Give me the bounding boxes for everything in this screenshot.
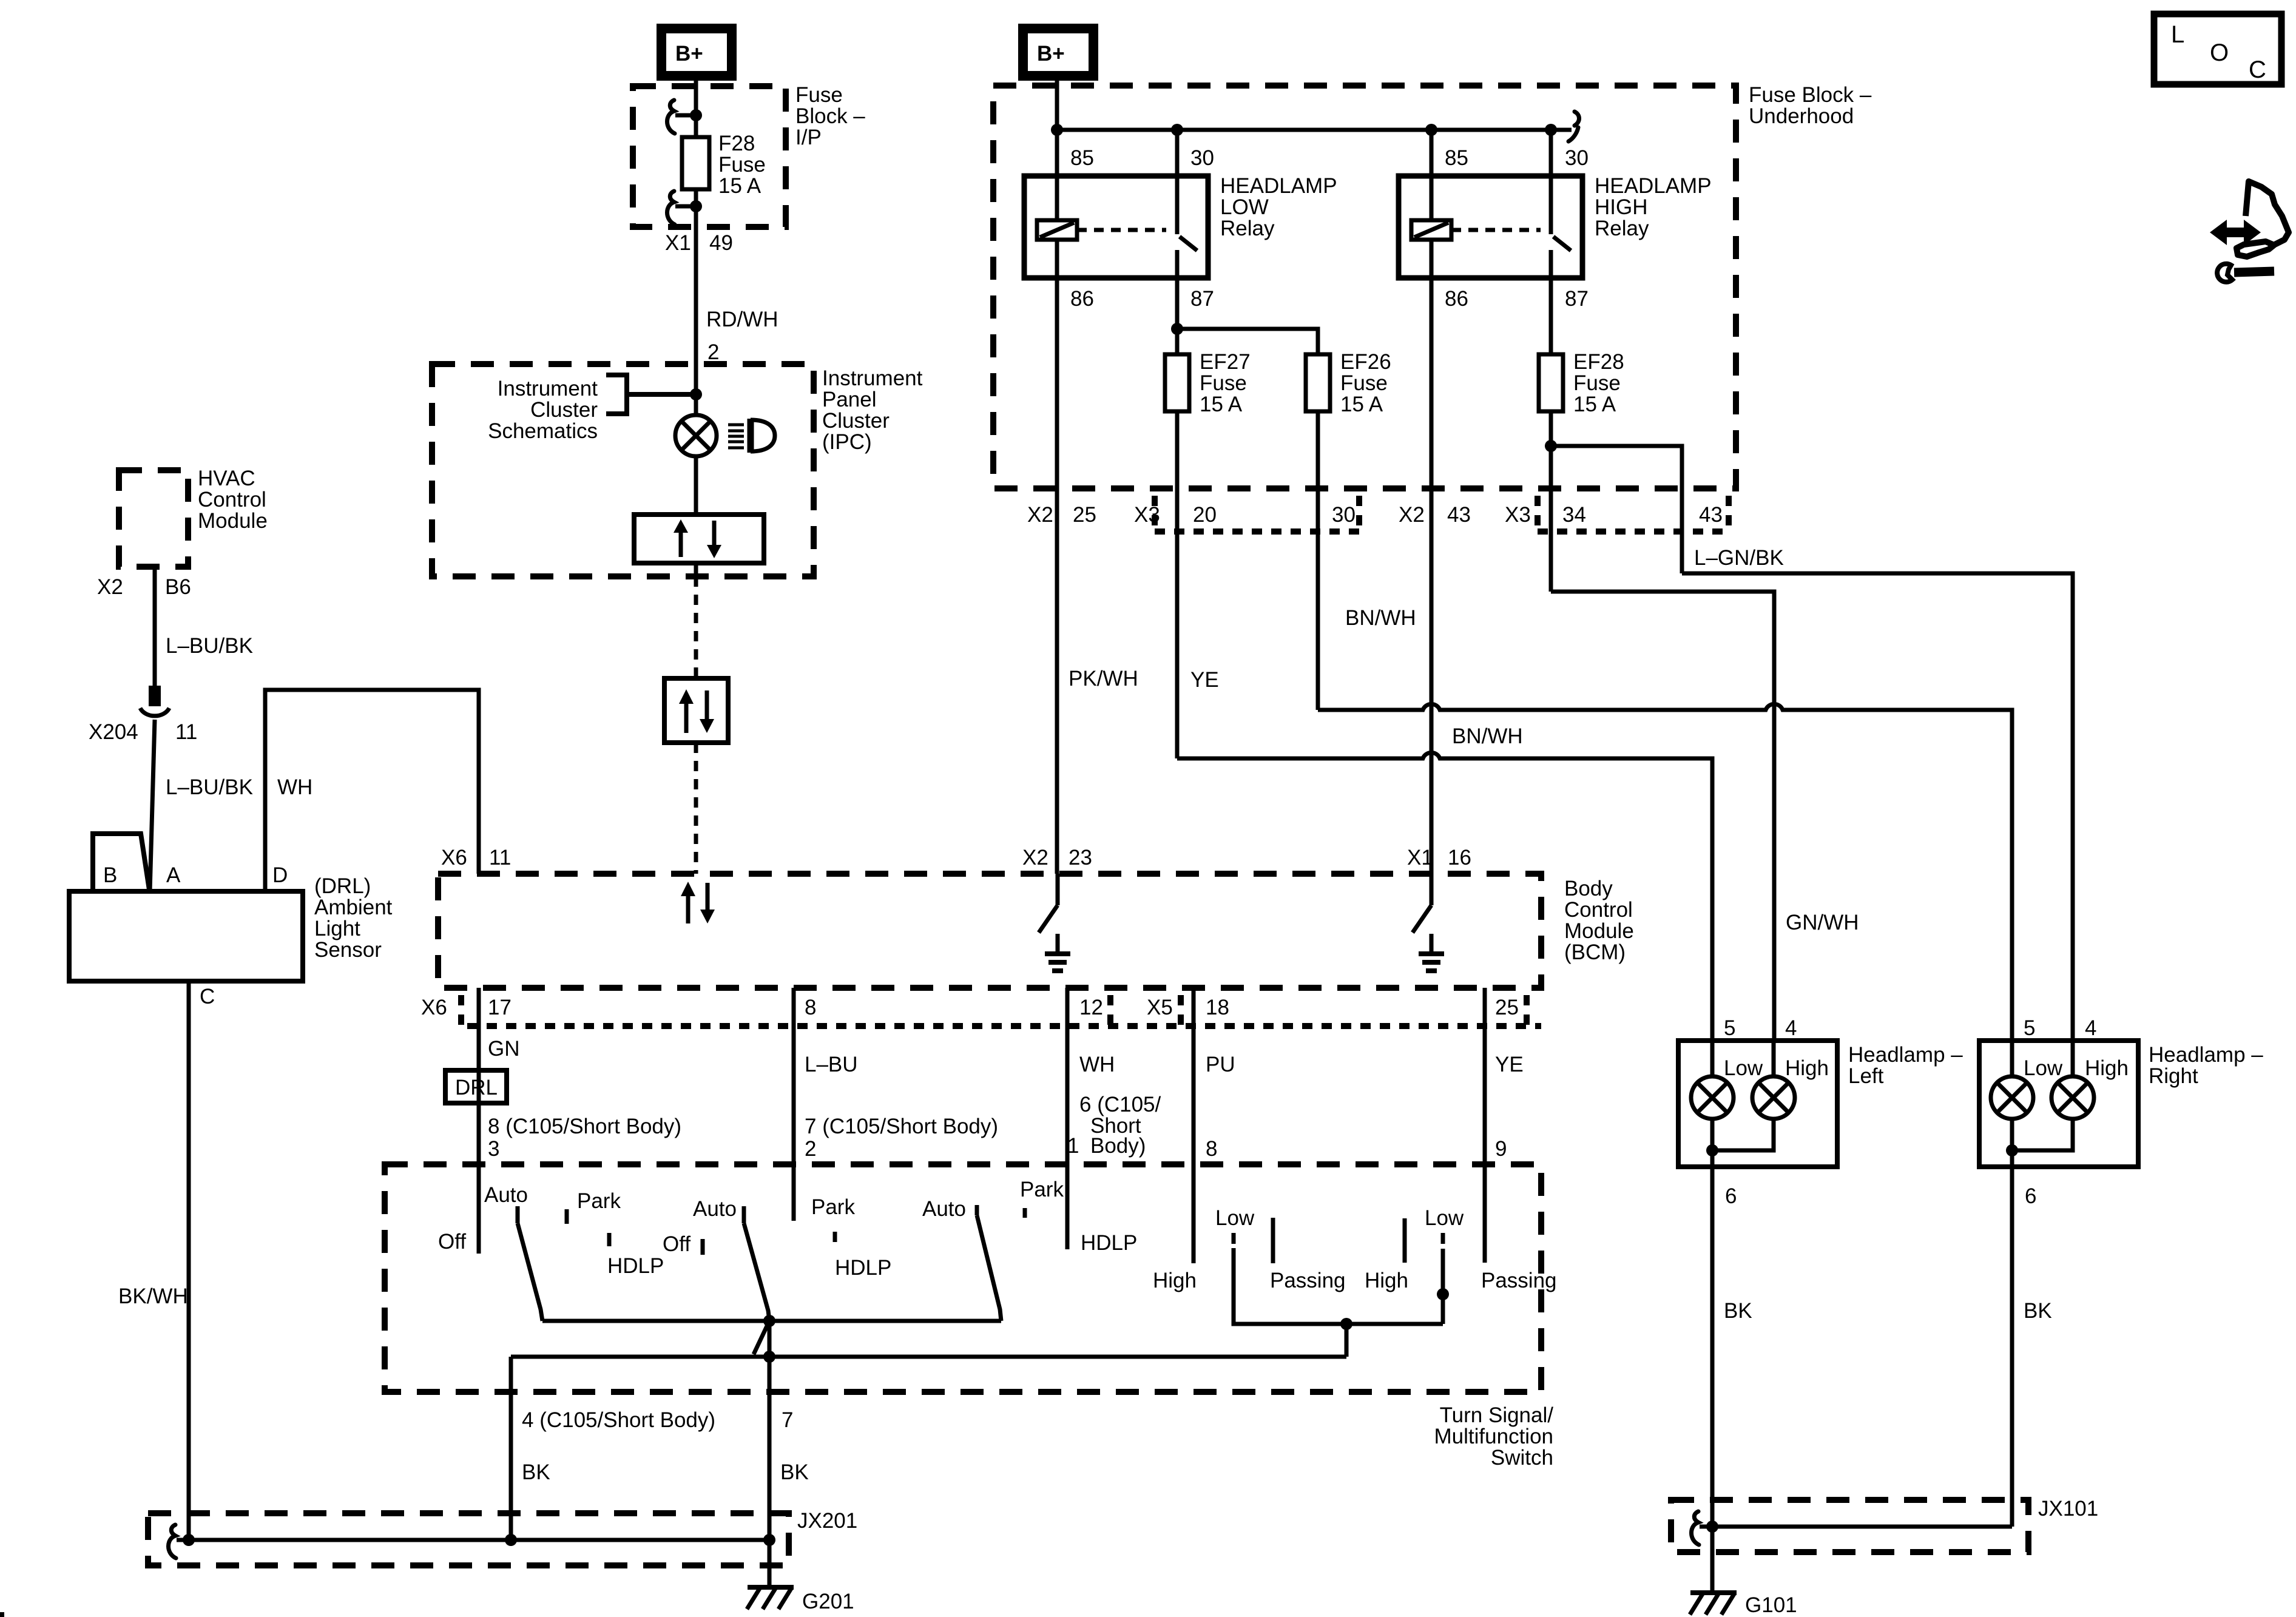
svg-text:X2: X2 xyxy=(1399,503,1425,527)
fuse clip (bottom) xyxy=(667,191,675,224)
sensor photo element (trapezoid, pin B) xyxy=(93,834,149,891)
relay switch (low) xyxy=(1175,176,1180,234)
svg-text:20: 20 xyxy=(1193,503,1217,527)
svg-text:Headlamp –: Headlamp – xyxy=(1848,1043,1963,1067)
bus feed inside fuse block xyxy=(1057,128,1572,132)
svg-text:Fuse: Fuse xyxy=(1200,371,1247,395)
svg-text:JX201: JX201 xyxy=(797,1509,857,1533)
svg-text:1: 1 xyxy=(1067,1134,1079,1158)
svg-text:X2: X2 xyxy=(97,575,123,599)
svg-text:G101: G101 xyxy=(1745,1593,1797,1617)
wire EF26 down (BN/WH) xyxy=(1316,411,1320,710)
wire EF27 down (YE) xyxy=(1175,411,1180,758)
wire BK (left) xyxy=(509,1392,513,1540)
svg-text:15 A: 15 A xyxy=(1200,393,1243,416)
battery feed B+ (underhood) xyxy=(1023,29,1093,76)
svg-text:A: A xyxy=(166,863,181,887)
JX201 junction block (dashed box) xyxy=(148,1513,789,1565)
wire relay high 87 down to EF28 xyxy=(1549,278,1553,354)
svg-text:Off: Off xyxy=(438,1230,466,1254)
svg-text:Block –: Block – xyxy=(795,104,865,128)
svg-text:Park: Park xyxy=(1020,1178,1064,1201)
wire BK (right) to JX201 xyxy=(768,1392,772,1540)
high beam bulb (left) xyxy=(1772,1041,1776,1076)
svg-text:Park: Park xyxy=(811,1195,855,1219)
svg-text:23: 23 xyxy=(1069,846,1092,869)
relay coil (low) xyxy=(1055,176,1059,220)
svg-text:7 (C105/Short Body): 7 (C105/Short Body) xyxy=(805,1115,998,1138)
svg-text:O: O xyxy=(2210,39,2229,66)
svg-text:Passing: Passing xyxy=(1481,1269,1557,1292)
wire B+ down into fuse block xyxy=(694,76,698,137)
svg-text:Control: Control xyxy=(198,488,266,511)
svg-text:43: 43 xyxy=(1699,503,1723,527)
svg-text:4: 4 xyxy=(1785,1016,1797,1040)
wire relay low 86 down (PK/WH) xyxy=(1055,278,1059,874)
ground bus JX101 xyxy=(1700,1525,2012,1529)
relay coil (high) xyxy=(1430,176,1434,220)
svg-text:9: 9 xyxy=(1495,1137,1507,1161)
svg-text:F28: F28 xyxy=(718,132,755,155)
service icon (double arrow, panel outline, wrench) xyxy=(2210,181,2289,282)
svg-text:BN/WH: BN/WH xyxy=(1452,724,1523,748)
wire Low 2 contact down to bus right xyxy=(1441,1249,1445,1324)
svg-text:4: 4 xyxy=(2085,1016,2096,1040)
svg-text:Light: Light xyxy=(314,917,360,940)
svg-text:6 (C105/: 6 (C105/ xyxy=(1079,1093,1161,1116)
ground bus clip xyxy=(169,1525,177,1558)
svg-text:Switch: Switch xyxy=(1491,1446,1553,1470)
HEADLAMP LOW relay box xyxy=(1024,176,1208,278)
svg-text:HDLP: HDLP xyxy=(607,1254,664,1278)
contact Auto (2) xyxy=(742,1206,746,1223)
contact Passing xyxy=(1271,1218,1275,1263)
svg-text:18: 18 xyxy=(1206,996,1229,1019)
svg-text:86: 86 xyxy=(1445,287,1468,311)
svg-text:HIGH: HIGH xyxy=(1595,195,1648,219)
wire IPC box to bottom edge xyxy=(694,563,698,576)
X3 connector dotted outline (right) xyxy=(1538,528,1729,535)
svg-text:HDLP: HDLP xyxy=(1081,1231,1137,1255)
headlamp beam icon xyxy=(728,425,744,448)
wire X204 to sensor pin A xyxy=(150,720,155,891)
svg-text:X5: X5 xyxy=(1147,996,1173,1019)
wire GN: BCM 17 to switch xyxy=(477,988,481,1254)
svg-text:25: 25 xyxy=(1073,503,1096,527)
svg-text:GN/WH: GN/WH xyxy=(1786,911,1859,934)
contact HDLP xyxy=(607,1233,612,1246)
svg-text:16: 16 xyxy=(1448,846,1471,869)
svg-text:Fuse Block –: Fuse Block – xyxy=(1749,83,1872,107)
svg-text:2: 2 xyxy=(805,1137,816,1161)
X3 connector dotted outline (left) xyxy=(1155,528,1359,535)
dashed data link wire to BCM xyxy=(694,743,698,874)
LOC reference box xyxy=(2154,14,2281,84)
svg-text:Left: Left xyxy=(1848,1064,1884,1088)
svg-text:EF27: EF27 xyxy=(1200,350,1251,374)
switch common bus 1 xyxy=(542,1319,1001,1323)
svg-text:Underhood: Underhood xyxy=(1749,104,1854,128)
svg-text:Relay: Relay xyxy=(1220,217,1275,240)
HVAC Control Module (dashed box) xyxy=(119,470,188,567)
svg-text:X3: X3 xyxy=(1505,503,1531,527)
wire YE: BCM 25 to switch xyxy=(1483,988,1487,1263)
svg-text:Control: Control xyxy=(1564,898,1633,922)
svg-text:11: 11 xyxy=(175,720,197,744)
svg-text:Auto: Auto xyxy=(922,1197,966,1221)
svg-text:D: D xyxy=(272,863,288,887)
Instrument Panel Cluster (dashed box) xyxy=(432,364,814,576)
svg-text:Auto: Auto xyxy=(693,1197,737,1221)
svg-text:Multifunction: Multifunction xyxy=(1434,1425,1553,1448)
svg-text:X204: X204 xyxy=(89,720,138,744)
svg-text:DRL: DRL xyxy=(455,1076,498,1099)
svg-text:WH: WH xyxy=(277,775,312,799)
svg-text:X2: X2 xyxy=(1027,503,1053,527)
svg-text:7: 7 xyxy=(782,1408,793,1432)
svg-text:HVAC: HVAC xyxy=(198,467,255,490)
svg-text:8 (C105/Short Body): 8 (C105/Short Body) xyxy=(488,1115,681,1138)
svg-text:87: 87 xyxy=(1565,287,1589,311)
fuse EF26 xyxy=(1306,354,1330,411)
ambient light sensor box xyxy=(69,891,303,981)
svg-text:Module: Module xyxy=(1564,919,1634,943)
svg-text:Headlamp –: Headlamp – xyxy=(2149,1043,2263,1067)
svg-text:X1: X1 xyxy=(1407,846,1433,869)
svg-text:Cluster: Cluster xyxy=(822,409,890,433)
ground G201 xyxy=(748,1585,794,1590)
svg-text:5: 5 xyxy=(1724,1016,1735,1040)
relay link high (dashed) xyxy=(1451,228,1541,232)
up/down arrows inside BCM xyxy=(681,882,715,923)
bus end clip xyxy=(1568,112,1579,141)
fuse EF27 xyxy=(1165,354,1189,411)
svg-text:Ambient: Ambient xyxy=(314,896,393,919)
wire 30 low relay xyxy=(1175,130,1180,176)
svg-text:L: L xyxy=(2171,21,2184,48)
svg-text:Body: Body xyxy=(1564,877,1613,900)
svg-text:RD/WH: RD/WH xyxy=(706,308,778,331)
switch blade (Auto 2) xyxy=(744,1223,769,1321)
wire EF28 out, branch xyxy=(1549,411,1553,592)
contact Off xyxy=(701,1239,705,1255)
wire BK right headlamp to JX101 xyxy=(2010,1167,2014,1527)
svg-text:BN/WH: BN/WH xyxy=(1345,606,1416,630)
svg-text:Low: Low xyxy=(1215,1206,1255,1230)
relay switch (high) xyxy=(1549,176,1553,234)
svg-text:L–BU/BK: L–BU/BK xyxy=(166,775,253,799)
svg-text:8: 8 xyxy=(805,996,816,1019)
svg-text:Sensor: Sensor xyxy=(314,938,382,962)
svg-text:85: 85 xyxy=(1445,146,1468,170)
bracket to instrument cluster schematics xyxy=(606,375,627,414)
svg-text:L–BU: L–BU xyxy=(805,1053,858,1076)
ground (BCM internal, left) xyxy=(1045,951,1070,956)
svg-text:30: 30 xyxy=(1565,146,1589,170)
ground G101 xyxy=(1690,1590,1737,1595)
svg-text:BK/WH: BK/WH xyxy=(118,1284,188,1308)
junction bus right to bus 2 xyxy=(1340,1318,1352,1330)
svg-text:WH: WH xyxy=(1079,1053,1115,1076)
contact High (2) xyxy=(1403,1218,1407,1263)
wire L-BU: BCM 8 to switch xyxy=(792,988,796,1221)
svg-text:B: B xyxy=(103,863,117,887)
svg-text:X6: X6 xyxy=(421,996,447,1019)
svg-text:Low: Low xyxy=(1425,1206,1464,1230)
svg-text:BK: BK xyxy=(2024,1299,2052,1323)
wire Low contact to bus right xyxy=(1234,1248,1443,1324)
svg-text:Right: Right xyxy=(2149,1064,2198,1088)
svg-text:Fuse: Fuse xyxy=(1340,371,1388,395)
wire WH: BCM 12 to switch xyxy=(1065,988,1070,1249)
svg-text:High: High xyxy=(2085,1056,2129,1080)
Fuse Block I/P (dashed box) xyxy=(633,86,786,227)
connector X204 (inline connector symbol) xyxy=(149,686,161,706)
wire sensor C down (BK/WH) xyxy=(187,981,191,1540)
wire 30 high relay xyxy=(1549,130,1553,176)
connector plane (dotted line) xyxy=(467,1023,1541,1029)
fuse clip (top) xyxy=(667,100,675,133)
dashed data link wire IPC to BCM xyxy=(694,576,698,678)
svg-text:Passing: Passing xyxy=(1270,1269,1346,1292)
svg-text:11: 11 xyxy=(489,846,511,869)
svg-text:25: 25 xyxy=(1495,996,1519,1019)
svg-text:30: 30 xyxy=(1190,146,1214,170)
fuse EF28 xyxy=(1539,354,1563,411)
svg-text:Module: Module xyxy=(198,509,268,533)
svg-text:4 (C105/Short Body): 4 (C105/Short Body) xyxy=(522,1408,715,1432)
wire HVAC X2-B6 down to X204 xyxy=(153,567,157,690)
wire to ground G101 xyxy=(1710,1527,1715,1594)
indicator lamp (circle-X) xyxy=(675,415,717,456)
svg-text:43: 43 xyxy=(1447,503,1471,527)
svg-text:BK: BK xyxy=(780,1460,809,1484)
svg-text:Schematics: Schematics xyxy=(488,419,598,443)
relay link (dashed) xyxy=(1077,228,1166,232)
wire YE horizontal to left headlamp low xyxy=(1177,752,1712,1041)
svg-text:(DRL): (DRL) xyxy=(314,874,371,898)
HEADLAMP HIGH relay box xyxy=(1399,176,1582,278)
low beam bulb (right) xyxy=(2010,1041,2014,1076)
svg-text:Fuse: Fuse xyxy=(1573,371,1621,395)
svg-text:Low: Low xyxy=(1724,1056,1763,1080)
serial data box with up/down arrows xyxy=(664,678,728,743)
svg-text:8: 8 xyxy=(1206,1137,1217,1161)
svg-text:B+: B+ xyxy=(1037,42,1065,66)
svg-text:Fuse: Fuse xyxy=(718,153,766,177)
svg-text:Cluster: Cluster xyxy=(530,398,598,422)
Headlamp Left box xyxy=(1678,1041,1837,1167)
svg-text:87: 87 xyxy=(1190,287,1214,311)
svg-text:LOW: LOW xyxy=(1220,195,1269,219)
switch blade (Auto 1) xyxy=(518,1223,542,1321)
svg-text:85: 85 xyxy=(1070,146,1094,170)
contact Auto xyxy=(516,1206,520,1223)
svg-text:12: 12 xyxy=(1079,996,1103,1019)
svg-text:I/P: I/P xyxy=(795,126,822,149)
wire lamp down to IPC driver box xyxy=(694,456,698,515)
svg-text:L–BU/BK: L–BU/BK xyxy=(166,634,253,658)
stray mark (bottom-left corner) xyxy=(0,1612,4,1617)
wire BN/WH horizontal to right headlamp low xyxy=(1318,704,2012,1041)
battery feed B+ (I/P) xyxy=(661,29,732,76)
svg-text:HEADLAMP: HEADLAMP xyxy=(1220,174,1337,198)
IPC driver box with up/down arrows xyxy=(634,515,764,563)
ground bus clip (JX101) xyxy=(1692,1511,1700,1545)
svg-text:High: High xyxy=(1153,1269,1197,1292)
svg-text:B6: B6 xyxy=(165,575,191,599)
svg-text:Instrument: Instrument xyxy=(498,377,598,400)
svg-text:Off: Off xyxy=(663,1232,690,1256)
Headlamp Right box xyxy=(1979,1041,2138,1167)
svg-text:B+: B+ xyxy=(675,42,703,66)
svg-text:HEADLAMP: HEADLAMP xyxy=(1595,174,1712,198)
svg-text:Body): Body) xyxy=(1090,1134,1146,1158)
svg-text:15 A: 15 A xyxy=(718,174,761,198)
svg-text:(BCM): (BCM) xyxy=(1564,940,1626,964)
svg-text:High: High xyxy=(1365,1269,1408,1292)
svg-text:15 A: 15 A xyxy=(1340,393,1383,416)
svg-text:15 A: 15 A xyxy=(1573,393,1616,416)
svg-text:EF28: EF28 xyxy=(1573,350,1624,374)
wire bus2 down at 4 xyxy=(509,1357,513,1392)
branch to EF26 xyxy=(1177,329,1318,354)
svg-text:G201: G201 xyxy=(802,1590,854,1613)
svg-text:Turn Signal/: Turn Signal/ xyxy=(1440,1403,1554,1427)
svg-text:Instrument: Instrument xyxy=(822,366,923,390)
svg-text:JX101: JX101 xyxy=(2038,1497,2098,1521)
svg-text:6: 6 xyxy=(1725,1184,1737,1208)
svg-text:X6: X6 xyxy=(441,846,467,869)
wire 34 to left headlamp high (GN/WH) xyxy=(1551,592,1774,706)
low beam bulb (left) xyxy=(1710,1041,1715,1076)
svg-text:HDLP: HDLP xyxy=(835,1256,891,1280)
wire relay high 86 down (to BCM X1-16) xyxy=(1430,278,1434,874)
bulb common junction (left) xyxy=(1710,1119,1715,1167)
svg-text:Low: Low xyxy=(2024,1056,2063,1080)
wire BK left headlamp to JX101 xyxy=(1710,1167,1715,1527)
svg-text:GN: GN xyxy=(488,1037,520,1061)
contact Low xyxy=(1232,1233,1236,1244)
Fuse Block Underhood (dashed box) xyxy=(993,86,1736,488)
svg-text:X1: X1 xyxy=(665,231,691,255)
junction xyxy=(690,109,702,121)
svg-text:Auto: Auto xyxy=(484,1183,528,1207)
svg-text:Panel: Panel xyxy=(822,388,877,411)
svg-text:34: 34 xyxy=(1562,503,1586,527)
DRL splice box xyxy=(445,1070,507,1103)
branch wire to pin 43 xyxy=(1551,446,1682,573)
JX101 junction block (dashed box) xyxy=(1671,1500,2028,1552)
svg-text:Fuse: Fuse xyxy=(795,83,843,107)
wire to ground G201 xyxy=(768,1540,772,1588)
wire 85 high relay xyxy=(1430,130,1434,176)
svg-text:L–GN/BK: L–GN/BK xyxy=(1694,546,1784,570)
svg-text:17: 17 xyxy=(488,996,512,1019)
wire B+ into underhood fuse block xyxy=(1055,76,1059,176)
Body Control Module (dashed box) xyxy=(438,874,1541,988)
svg-text:X2: X2 xyxy=(1022,846,1048,869)
svg-text:PU: PU xyxy=(1206,1053,1235,1076)
bulb common junction (right) xyxy=(2010,1119,2014,1167)
svg-text:Park: Park xyxy=(577,1189,621,1213)
svg-text:49: 49 xyxy=(709,231,733,255)
ground bus JX201 xyxy=(177,1538,769,1542)
svg-text:5: 5 xyxy=(2024,1016,2035,1040)
wire junction at IPC xyxy=(694,364,698,415)
svg-text:(IPC): (IPC) xyxy=(822,430,872,454)
fuse F28 xyxy=(682,137,709,189)
svg-text:PK/WH: PK/WH xyxy=(1069,667,1138,690)
svg-text:2: 2 xyxy=(707,340,719,364)
Turn Signal/Multifunction Switch (dashed box) xyxy=(385,1164,1541,1392)
wire 43 to right headlamp high (L-GN/BK) xyxy=(1682,573,2073,1041)
svg-text:BK: BK xyxy=(522,1460,550,1484)
switch blade (Auto 3) xyxy=(977,1215,1001,1321)
BCM internal switch to ground (X1-16) xyxy=(1430,874,1434,905)
svg-text:C: C xyxy=(200,985,215,1008)
wire bus1 down to pin 7 xyxy=(768,1321,772,1392)
contact HDLP (2) xyxy=(833,1232,837,1242)
contact Park xyxy=(565,1209,569,1224)
BCM internal switch to ground (X2-23) xyxy=(1056,874,1060,905)
svg-text:Relay: Relay xyxy=(1595,217,1649,240)
svg-text:86: 86 xyxy=(1070,287,1094,311)
svg-text:EF26: EF26 xyxy=(1340,350,1391,374)
svg-text:YE: YE xyxy=(1495,1053,1524,1076)
ground (BCM internal, right) xyxy=(1419,951,1444,956)
dimmer blade from bus 1 xyxy=(754,1321,769,1354)
svg-text:3: 3 xyxy=(488,1137,499,1161)
wire PU: BCM 18 to switch xyxy=(1192,988,1196,1263)
wire F28 to IPC pin 2 xyxy=(694,189,698,364)
svg-text:6: 6 xyxy=(2025,1184,2036,1208)
high beam bulb (right) xyxy=(2071,1041,2075,1076)
svg-text:BK: BK xyxy=(1724,1299,1752,1323)
wire relay low 87 down to fuses xyxy=(1175,278,1180,354)
contact Auto (3) xyxy=(975,1205,979,1215)
contact Park (3) xyxy=(1023,1208,1027,1218)
svg-text:High: High xyxy=(1785,1056,1829,1080)
svg-text:C: C xyxy=(2249,56,2266,83)
contact Low (2) xyxy=(1441,1233,1445,1244)
switch common bus 2 xyxy=(511,1355,1346,1359)
svg-text:YE: YE xyxy=(1190,668,1219,692)
svg-text:30: 30 xyxy=(1332,503,1356,527)
wire WH from sensor D up and right to BCM X6-11 xyxy=(265,690,479,891)
junction xyxy=(690,200,702,212)
